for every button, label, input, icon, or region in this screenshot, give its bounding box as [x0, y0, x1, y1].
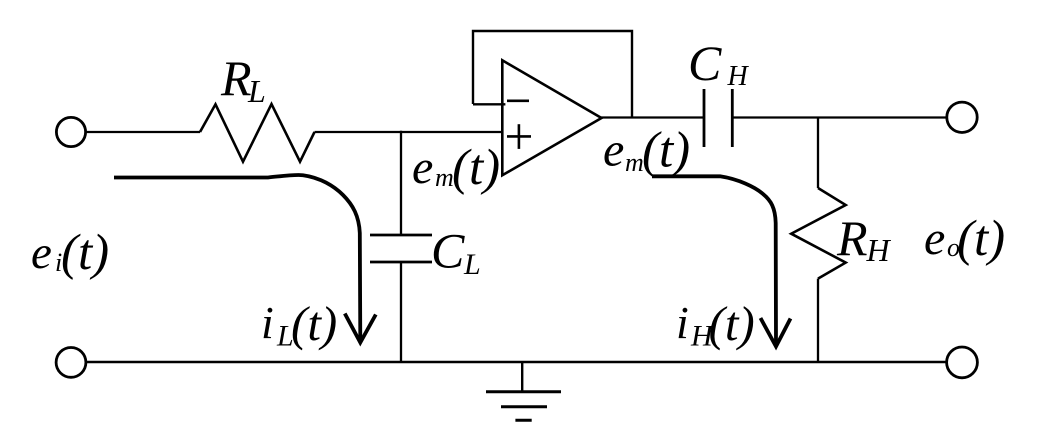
svg-text:(t): (t): [291, 296, 337, 351]
capacitor CL bottom lead: [400, 262, 402, 363]
svg-text:R: R: [836, 210, 868, 266]
svg-text:(t): (t): [957, 211, 1005, 267]
resistor RH: [791, 188, 846, 279]
capacitor CH plates: [703, 89, 706, 147]
svg-text:L: L: [247, 73, 266, 109]
capacitor CL top lead: [400, 131, 402, 235]
ground bar 3: [515, 419, 531, 422]
svg-text:(t): (t): [642, 123, 690, 179]
svg-text:(t): (t): [709, 296, 755, 351]
svg-text:L: L: [463, 248, 481, 281]
ground bar 1: [486, 390, 561, 393]
current arrow iL curve: [114, 175, 360, 341]
resistor RH bottom lead: [817, 279, 819, 363]
current arrow iL head: [345, 314, 376, 343]
capacitor CL plates: [370, 234, 432, 237]
ground stem: [521, 362, 523, 392]
bottom bus wire: [86, 361, 947, 363]
bottom-left terminal: [56, 348, 86, 378]
svg-text:e: e: [31, 227, 52, 279]
wire RL to op-amp + input (node at CL): [315, 131, 503, 133]
current arrow iH head: [761, 318, 791, 347]
svg-text:R: R: [220, 50, 252, 106]
op-amp U1 triangle: [502, 60, 601, 175]
svg-text:C: C: [431, 223, 465, 279]
svg-text:(t): (t): [61, 225, 109, 281]
plus symbol (non-inverting input): [507, 135, 531, 138]
svg-text:H: H: [866, 232, 892, 268]
resistor RH top lead: [817, 118, 819, 189]
minus symbol (inverting input): [507, 100, 529, 103]
input terminal (top-left): [56, 117, 85, 146]
svg-text:e: e: [412, 141, 433, 194]
wire op-amp output to CH: [601, 116, 704, 118]
feedback wire box: [473, 31, 632, 118]
svg-text:(t): (t): [452, 140, 500, 196]
svg-text:C: C: [688, 35, 722, 91]
wire CH to output terminal (node at RH): [732, 116, 946, 118]
ground bar 2: [501, 405, 547, 408]
wire input to resistor RL: [86, 131, 200, 133]
svg-text:e: e: [924, 212, 945, 265]
top-right output terminal: [947, 102, 977, 132]
svg-text:H: H: [727, 61, 750, 92]
wire feedback to inverting input: [473, 103, 505, 105]
svg-text:i: i: [261, 297, 274, 348]
current arrow iH curve: [652, 176, 776, 345]
bottom-right output terminal: [947, 347, 978, 378]
svg-text:m: m: [625, 148, 644, 177]
svg-text:m: m: [435, 163, 454, 192]
resistor RL: [200, 104, 315, 162]
svg-text:e: e: [603, 124, 624, 177]
svg-text:i: i: [676, 297, 689, 348]
